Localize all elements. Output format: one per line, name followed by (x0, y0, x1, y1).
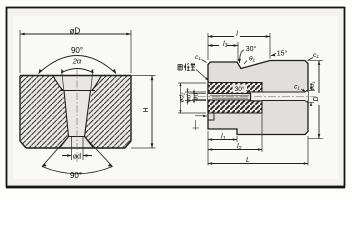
svg-text:L: L (246, 157, 250, 164)
block outline (20, 76, 131, 149)
svg-text:ød: ød (73, 154, 81, 161)
svg-text:ød2: ød2 (179, 92, 186, 102)
svg-text:l3: l3 (223, 41, 228, 49)
svg-text:ød3: ød3 (310, 81, 316, 90)
bottom dims (207, 131, 209, 166)
svg-text:ød: ød (193, 92, 200, 100)
bell bottom edge (60, 90, 95, 92)
case bore lines (262, 90, 308, 103)
svg-text:2α: 2α (72, 57, 82, 66)
entrance chamfer (208, 92, 211, 101)
dim H right (131, 75, 156, 77)
2a extension stubs through bell (62, 69, 94, 90)
case body (208, 61, 308, 135)
svg-text:90°: 90° (71, 46, 83, 55)
cone bottom edge (68, 136, 86, 138)
nib bores background (208, 94, 251, 101)
center line (76, 68, 78, 162)
centerline (198, 96, 318, 98)
svg-text:c1: c1 (294, 84, 300, 91)
nib hatched top band (208, 83, 262, 94)
cone sides (64, 91, 91, 137)
notch dim (195, 115, 207, 117)
svg-text:c1: c1 (195, 54, 201, 61)
right side dims (307, 90, 315, 92)
svg-text:15°: 15° (277, 50, 288, 58)
svg-text:90°: 90° (70, 171, 82, 180)
bore step (250, 92, 252, 101)
90 deg bottom (42, 137, 113, 167)
die block body (hatched section) (20, 76, 69, 149)
svg-text:30°: 30° (235, 85, 245, 93)
chinese label (178, 63, 195, 70)
bell sides (53, 76, 102, 91)
svg-text:H: H (143, 107, 150, 112)
top dimension lines (207, 33, 209, 60)
svg-text:l1: l1 (221, 134, 226, 142)
internal 30 label (233, 85, 248, 93)
exit cone (60, 137, 94, 149)
dim phi-D (20, 33, 131, 35)
nib hatched bottom band (208, 100, 262, 113)
svg-text:ød1: ød1 (186, 92, 193, 102)
svg-text:øD: øD (70, 27, 81, 36)
svg-text:30°: 30° (246, 45, 257, 53)
left small diameter dims (178, 83, 206, 113)
svg-text:θ1: θ1 (249, 56, 256, 63)
90 deg top arc (39, 56, 117, 74)
svg-text:D: D (313, 96, 320, 101)
notch on left face (208, 114, 214, 121)
funnel interior (53, 76, 102, 149)
svg-text:c1: c1 (313, 52, 319, 59)
border frame (7, 8, 345, 187)
svg-text:l2: l2 (237, 144, 242, 152)
phi-d bottom (71, 137, 73, 160)
